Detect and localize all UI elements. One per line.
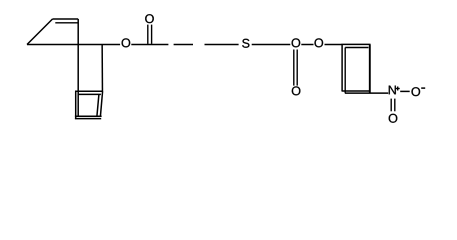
- wire bond N to O minus: [400, 90, 410, 92]
- wire bond O to aryl ring: [325, 44, 343, 46]
- node carbonyl O: [145, 14, 154, 23]
- wire carbonate O=O double bond: [293, 50, 295, 86]
- wire chain dash segment 2: [174, 44, 193, 46]
- wire vertical bond x102 upper: [101, 45, 103, 92]
- wire chain dash segment 3 to S: [205, 44, 239, 46]
- wire top double bond inner: [55, 22, 77, 24]
- node peroxide O: [314, 38, 323, 47]
- plus sign of N+: [396, 88, 400, 90]
- wire square bottom line 1: [75, 115, 102, 117]
- wire diagonal bond left ring: [27, 19, 53, 45]
- wire carbonyl C=O double bond: [147, 25, 149, 44]
- wire square outer-left vertical: [75, 91, 77, 119]
- wire bond S to carbonate O: [252, 44, 291, 46]
- wire square top outer: [75, 90, 103, 92]
- node carbonate O bottom: [292, 86, 301, 95]
- minus sign of O-: [421, 87, 425, 89]
- node nitro O double-bonded: [389, 114, 398, 123]
- wire ring bottom inner edge extending to N: [345, 92, 388, 94]
- wire vertical bond x78: [77, 19, 79, 117]
- wire ring right vertical: [369, 44, 371, 93]
- node ester O: [122, 38, 131, 47]
- node nitro N: [389, 86, 396, 95]
- wire ring top inner edge: [345, 47, 368, 49]
- wire N=O double bond down: [390, 99, 392, 112]
- wire square bottom line 2: [75, 118, 101, 120]
- wire bond ester O to carbonyl C: [131, 44, 168, 46]
- wire ring left inner vertical: [344, 48, 346, 94]
- node carbonate O top: [292, 38, 301, 47]
- wire main chain baseline left: [27, 44, 120, 46]
- wire square top inner: [78, 93, 101, 95]
- wire square inner-right vertical: [97, 94, 99, 116]
- wire square right edge slanted: [100, 91, 102, 116]
- wire bond O-O peroxide: [301, 44, 313, 46]
- wire ring left outer vertical: [341, 44, 343, 91]
- node nitro O minus: [411, 87, 420, 96]
- wire top double bond outer: [53, 18, 79, 20]
- node S (thioether): [242, 39, 249, 48]
- wire ring bottom outer edge: [342, 90, 370, 92]
- wire ring top outer edge: [342, 43, 371, 45]
